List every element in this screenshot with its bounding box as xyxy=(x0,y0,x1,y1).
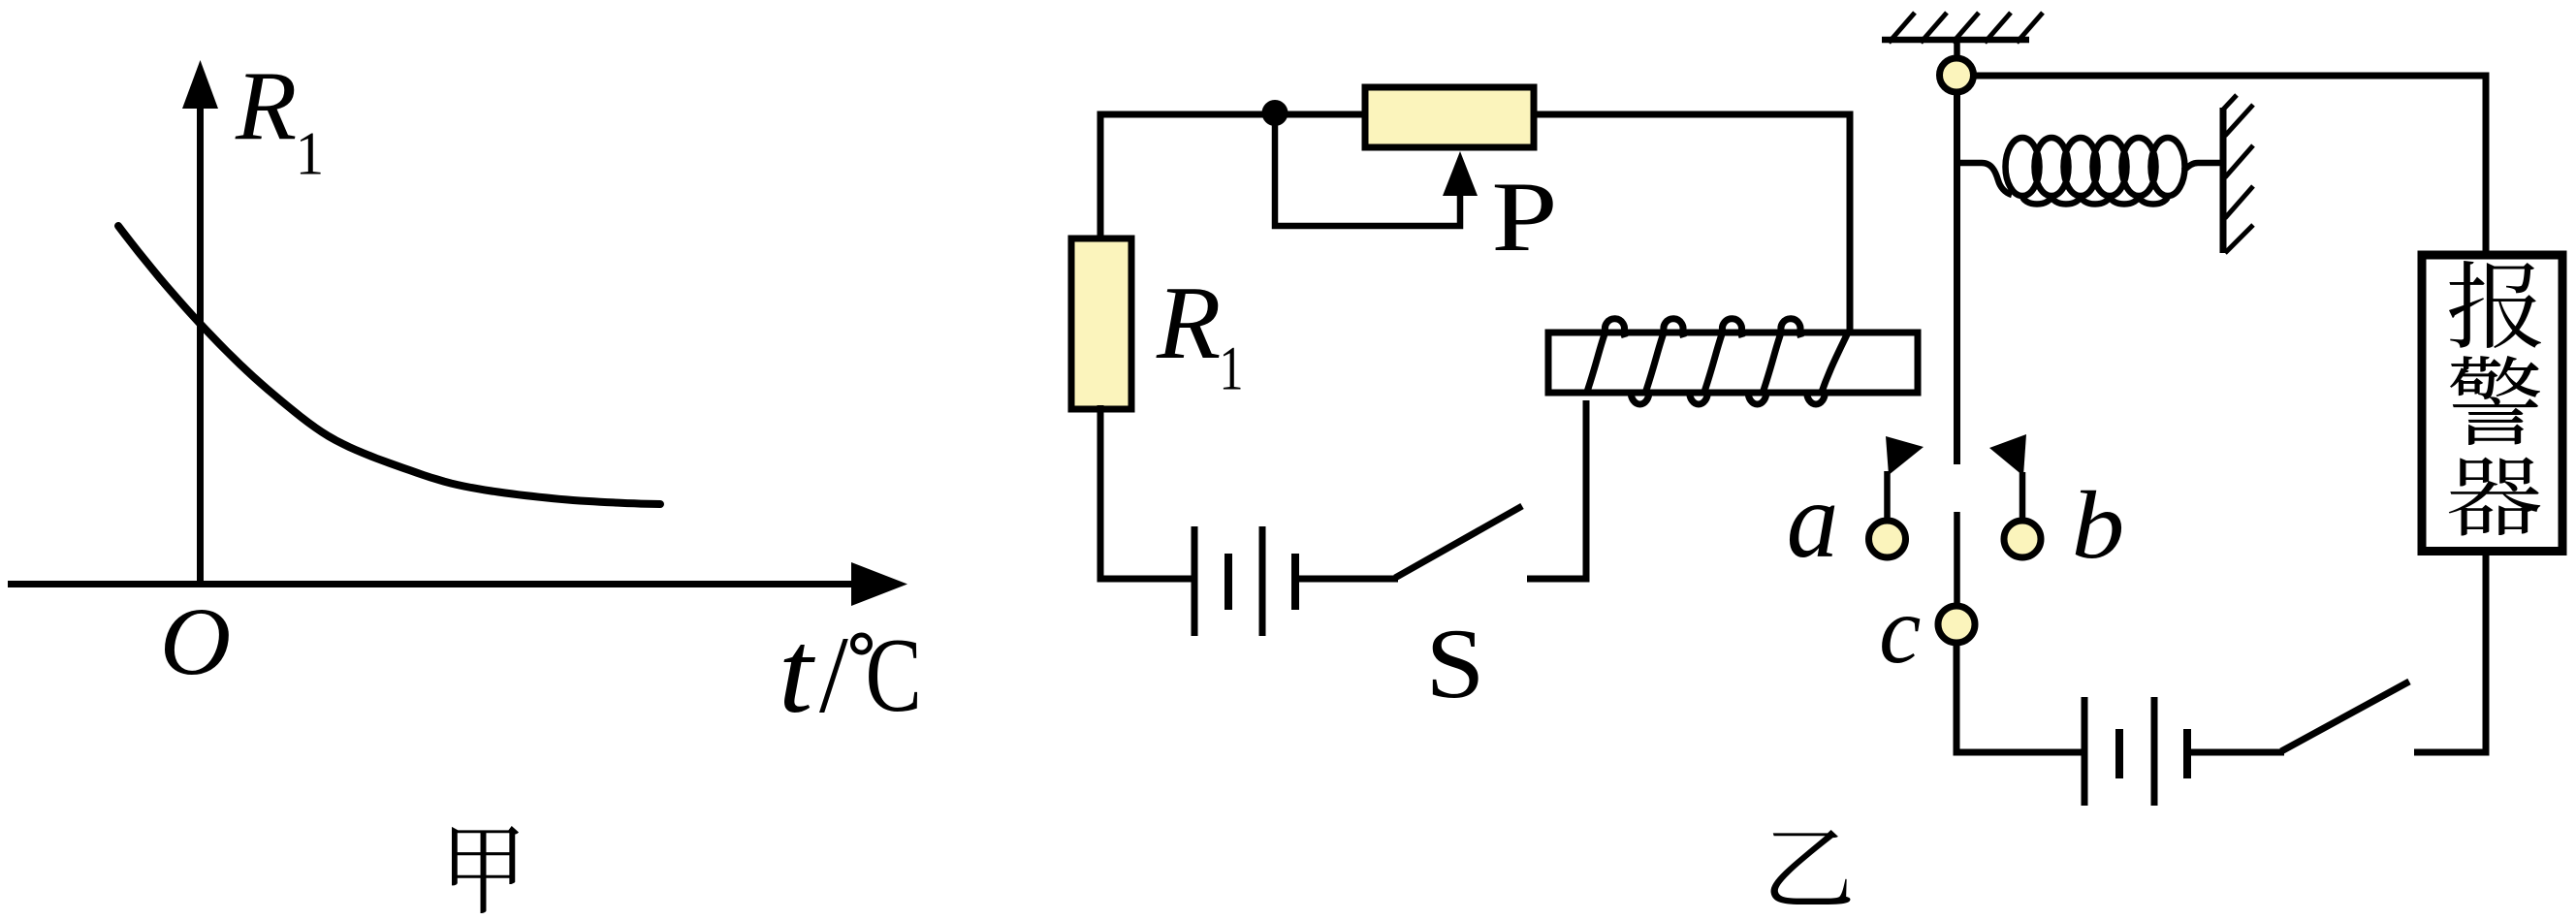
alarm text 器 xyxy=(2449,458,2541,536)
label a xyxy=(1787,460,1839,581)
svg-text:C: C xyxy=(866,618,922,734)
label b xyxy=(2072,471,2125,579)
alarm text 警 xyxy=(2450,356,2540,445)
switch 2 contact and wire to alarm (bottom) xyxy=(2414,555,2486,752)
contact a flag xyxy=(1886,436,1924,475)
svg-text:P: P xyxy=(1491,161,1557,272)
pivot stub xyxy=(1954,40,1960,58)
label R (circuit) xyxy=(1156,266,1221,381)
contact b terminal xyxy=(2004,521,2041,557)
junction node dot xyxy=(1262,100,1288,126)
svg-text:1: 1 xyxy=(296,121,324,188)
svg-text:t: t xyxy=(779,607,816,737)
electromagnet coil turns xyxy=(1586,319,1849,404)
caption 甲 (figure 1) xyxy=(452,826,519,913)
label subscript 1 (circuit) xyxy=(1220,335,1244,403)
armature lever xyxy=(1954,92,1960,464)
svg-text:a: a xyxy=(1787,460,1839,581)
svg-text:b: b xyxy=(2072,471,2125,579)
potentiometer (rheostat) body xyxy=(1365,87,1534,147)
x-axis label t xyxy=(779,607,816,737)
R1 vs t curve xyxy=(118,226,660,504)
contact c terminal xyxy=(1938,606,1975,643)
wire c to battery 2 xyxy=(1956,643,2082,752)
alarm text 报 xyxy=(2449,261,2541,348)
wire battery to switch S xyxy=(1295,576,1398,583)
graph y-axis (R1 axis) xyxy=(182,60,218,587)
wire battery 2 to switch 2 xyxy=(2187,749,2284,756)
wire R1 bottom to battery xyxy=(1100,405,1194,579)
axis label R (graph) xyxy=(235,52,297,161)
ceiling support (hatched) xyxy=(1882,13,2043,43)
x-axis label slash xyxy=(819,613,848,736)
origin label O xyxy=(160,587,231,695)
contact a terminal xyxy=(1869,521,1906,557)
wiper arm with arrow P xyxy=(1275,112,1478,226)
spring xyxy=(1957,138,2221,205)
contact a post xyxy=(1884,471,1891,521)
contact b flag xyxy=(1989,434,2026,476)
contact b post xyxy=(2019,472,2026,520)
x-axis label degree sign xyxy=(853,635,871,652)
svg-text:R: R xyxy=(235,52,297,161)
switch 2 blade xyxy=(2281,682,2409,751)
wire pivot to alarm (top) xyxy=(1974,76,2486,252)
switch S blade xyxy=(1395,506,1522,578)
fixed post to contact c xyxy=(1954,512,1960,606)
resistor R1 (thermistor) xyxy=(1071,238,1131,409)
svg-text:/: / xyxy=(819,613,848,736)
x-axis label C xyxy=(866,618,922,734)
electromagnet core xyxy=(1548,333,1918,393)
battery (alarm circuit) xyxy=(2084,697,2187,806)
svg-text:c: c xyxy=(1879,577,1921,683)
graph x-axis (t axis) xyxy=(8,562,907,606)
svg-text:S: S xyxy=(1425,609,1484,719)
svg-text:R: R xyxy=(1156,266,1221,381)
wire pot to solenoid right lead xyxy=(1534,114,1850,333)
caption 乙 (figure 2) xyxy=(1771,830,1851,904)
wire top-left: R1 top to pot left xyxy=(1100,114,1365,241)
spring anchor wall (hatched) xyxy=(2223,95,2253,253)
switch S right contact and wire to coil xyxy=(1527,400,1586,579)
alarm box xyxy=(2422,255,2562,552)
label c xyxy=(1879,577,1921,683)
axis label subscript 1 (graph) xyxy=(296,121,324,188)
label S xyxy=(1425,609,1484,719)
svg-text:1: 1 xyxy=(1220,335,1244,403)
label P xyxy=(1491,161,1557,272)
pivot bearing (circle) xyxy=(1940,58,1974,92)
svg-text:O: O xyxy=(160,587,231,695)
battery (control circuit) xyxy=(1194,526,1295,636)
